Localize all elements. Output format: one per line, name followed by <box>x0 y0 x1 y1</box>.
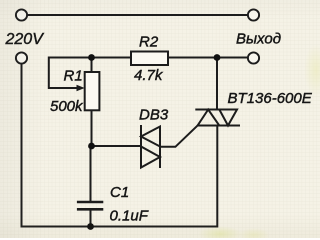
wire left vertical from 220V terminal <box>22 64 91 227</box>
terminal output lower-right <box>248 52 259 63</box>
svg-text:4.7k: 4.7k <box>134 67 164 84</box>
svg-text:DB3: DB3 <box>139 107 169 124</box>
junction node A <box>88 54 95 61</box>
resistor R1 body (potentiometer 500k) <box>85 72 100 110</box>
svg-text:C1: C1 <box>110 184 129 201</box>
svg-text:0.1uF: 0.1uF <box>110 208 149 225</box>
terminal top-left <box>16 9 27 20</box>
wire R2 to node B <box>168 57 217 59</box>
terminal 220V lower-left <box>16 52 27 63</box>
yellow stain bottom center <box>198 226 242 240</box>
wire node B down to triac MT2 <box>216 58 218 110</box>
terminal top-right <box>248 9 259 20</box>
svg-text:R2: R2 <box>139 34 159 51</box>
svg-text:R1: R1 <box>64 68 83 85</box>
wire top (L input to output) <box>28 14 247 16</box>
wire diac to triac gate <box>160 126 198 147</box>
wire R1 bottom to node C <box>91 110 93 146</box>
yellow stain bottom right <box>238 228 270 240</box>
junction node D (bottom) <box>87 223 94 230</box>
svg-text:Выход: Выход <box>236 31 281 48</box>
junction node B <box>214 54 221 61</box>
svg-text:220V: 220V <box>5 31 45 48</box>
potentiometer wiper arrow <box>77 85 85 91</box>
wire node A to R2 <box>92 57 132 59</box>
svg-text:500k: 500k <box>50 98 84 115</box>
wire R1 wiper loop <box>49 58 92 89</box>
wire C1 bottom to bottom rail <box>90 210 92 227</box>
capacitor C1 plates <box>77 202 103 209</box>
wire node A to R1 top <box>91 58 93 73</box>
junction node C <box>88 143 95 150</box>
yellow stain right edge <box>304 44 320 96</box>
wire node C down to C1 <box>90 146 92 202</box>
wire node C to diac DB3 <box>92 145 142 147</box>
svg-text:BT136-600E: BT136-600E <box>228 90 313 107</box>
resistor R2 body <box>131 52 168 66</box>
wire bottom <box>91 126 218 227</box>
diac DB3 <box>141 125 160 168</box>
triac BT136-600E <box>195 110 240 126</box>
wire node B to output terminal <box>217 57 247 59</box>
